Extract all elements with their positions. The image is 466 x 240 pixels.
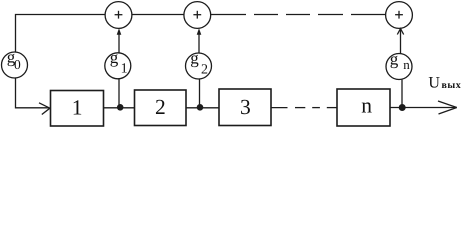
svg-text:n: n [403, 57, 410, 72]
svg-text:2: 2 [201, 63, 208, 78]
svg-text:0: 0 [14, 57, 21, 72]
svg-text:1: 1 [121, 62, 128, 77]
svg-text:g: g [190, 49, 199, 68]
svg-text:n: n [361, 94, 372, 118]
svg-text:g: g [390, 50, 399, 69]
svg-text:вых: вых [442, 80, 462, 91]
svg-text:g: g [110, 48, 119, 67]
svg-text:2: 2 [155, 95, 166, 119]
svg-text:1: 1 [72, 95, 83, 119]
svg-text:U: U [428, 75, 440, 92]
svg-text:3: 3 [240, 95, 251, 119]
